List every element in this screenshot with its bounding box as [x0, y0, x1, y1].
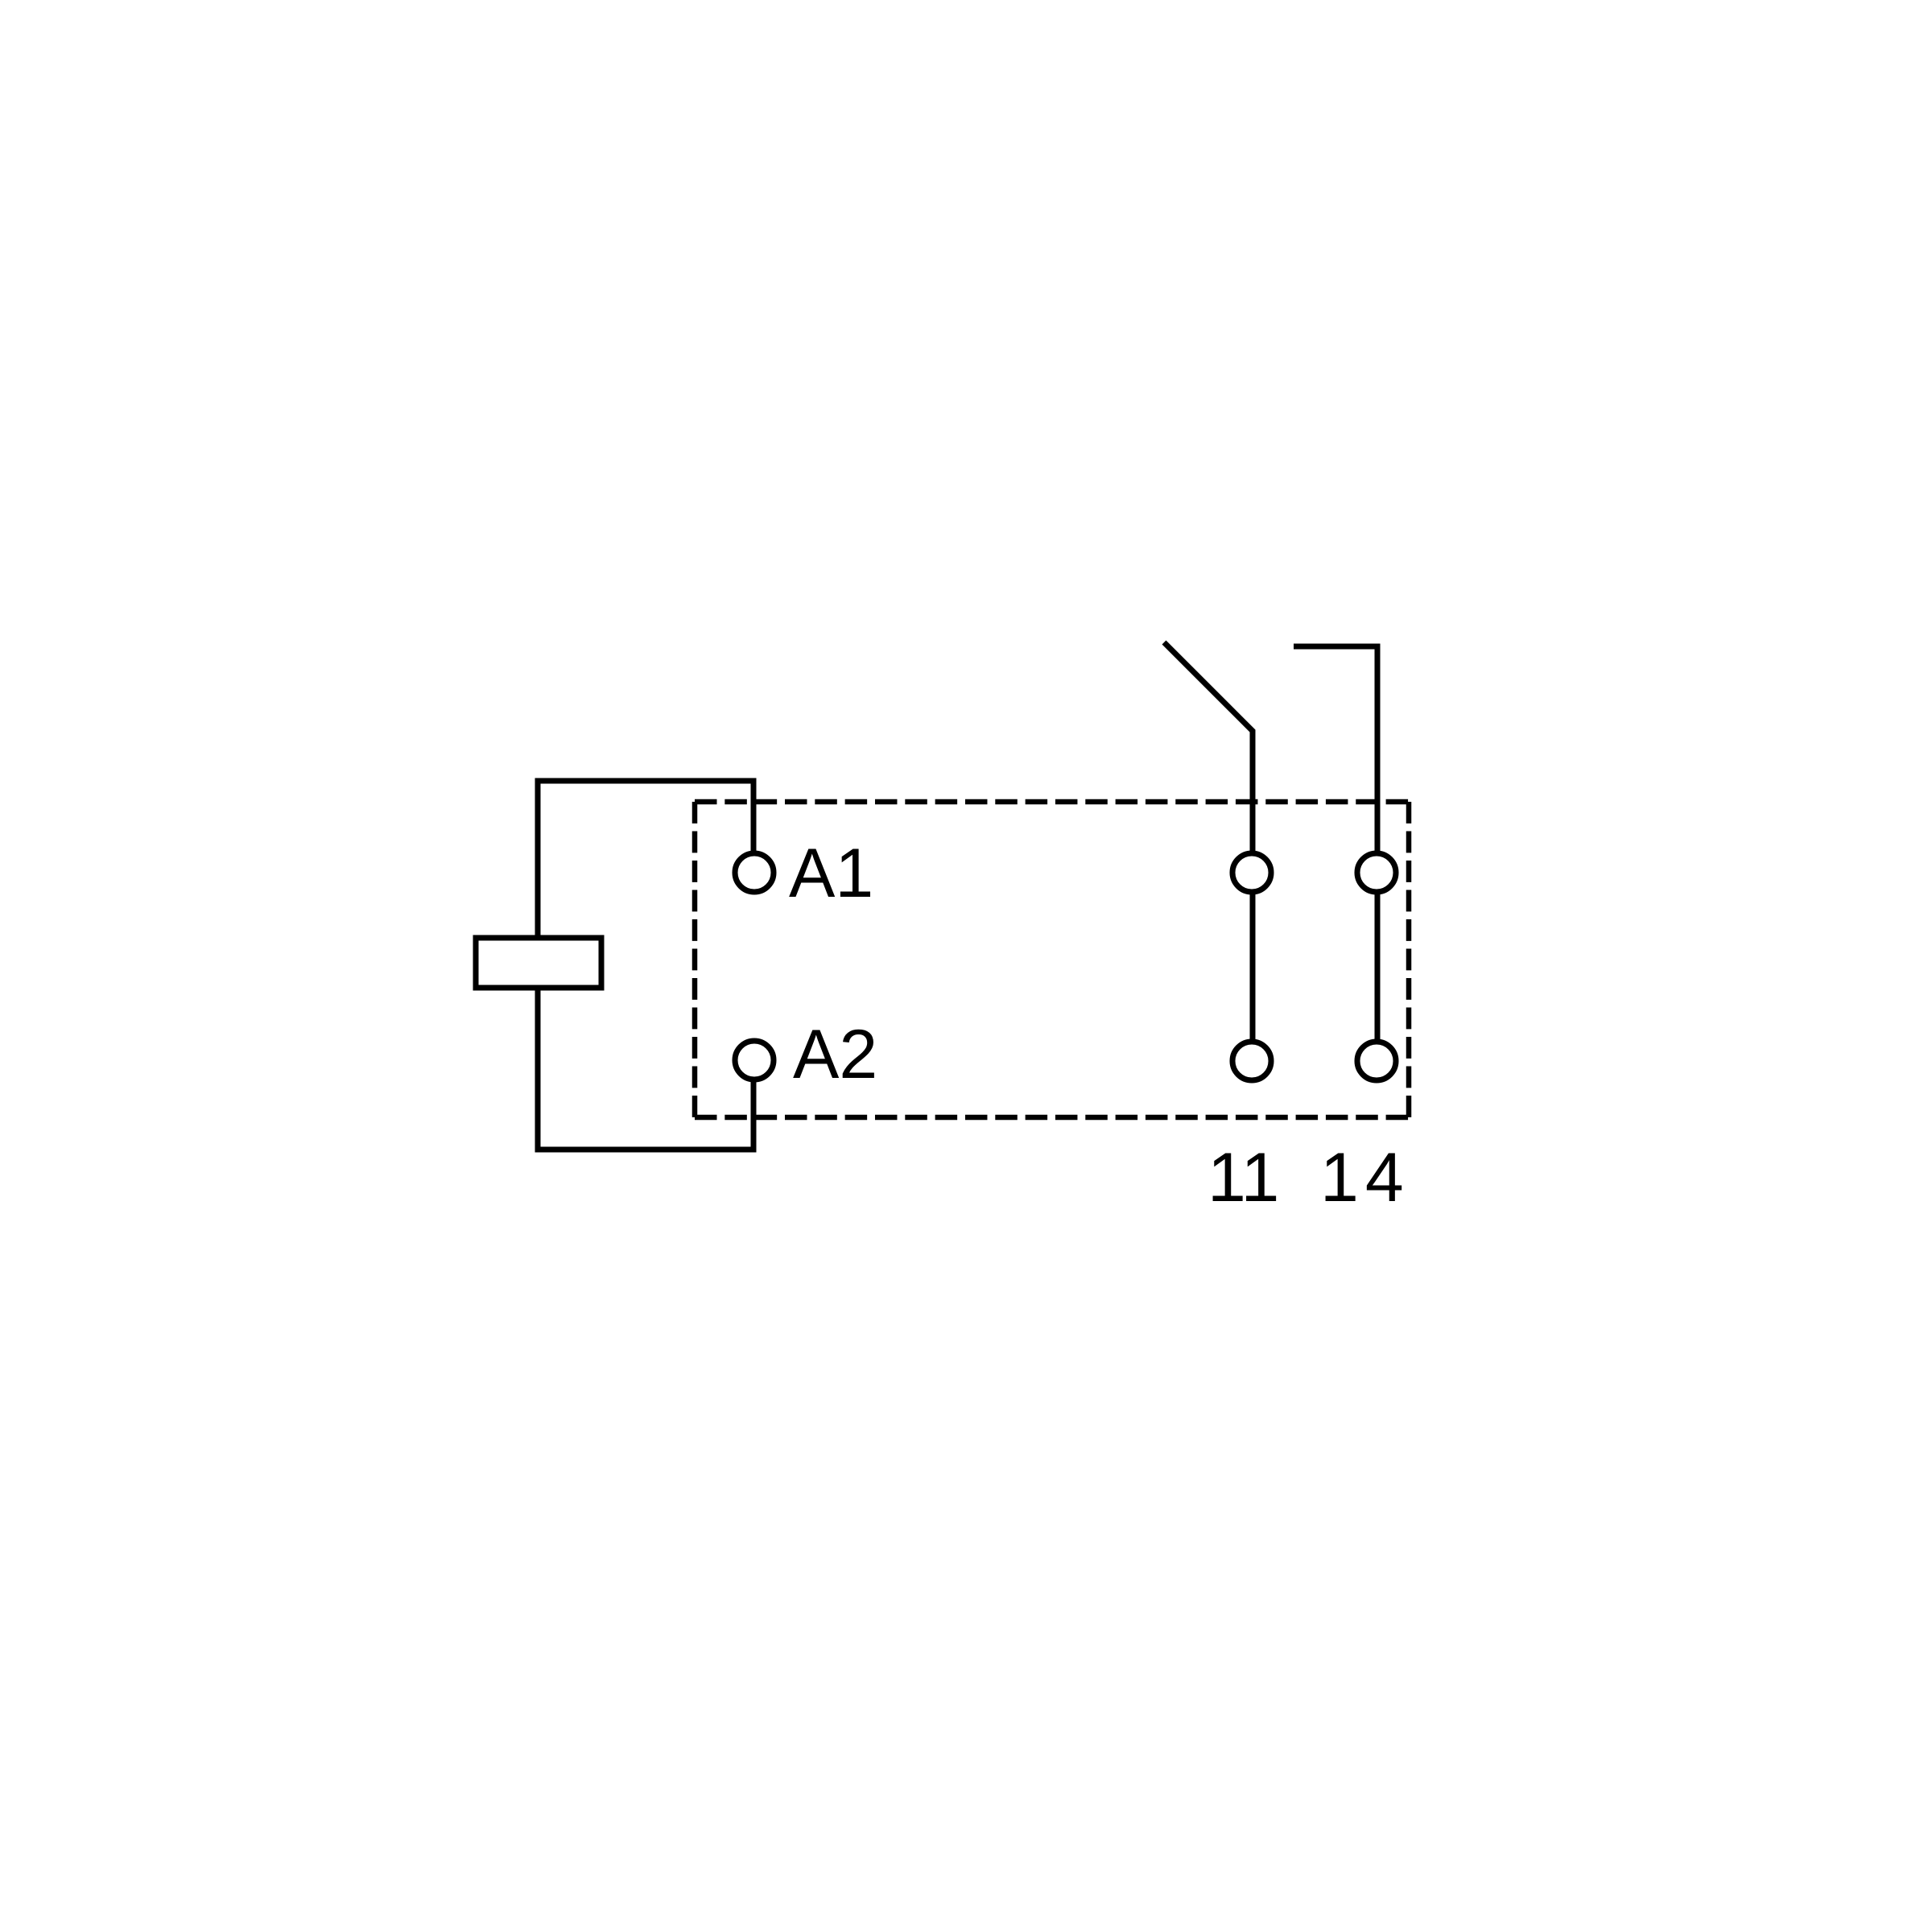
terminal A1 [735, 853, 774, 892]
wire coil loop: A1 feed (left vertical up, top horizontal, down to A1) [538, 781, 753, 938]
terminal 14 bottom [1357, 1042, 1396, 1080]
wire pin 14 (horizontal stub and vertical drop) [1294, 646, 1377, 1061]
svg-text:A2: A2 [793, 1016, 877, 1093]
relay body outline (dashed box) bottom edge [695, 1115, 1409, 1121]
svg-text:A1: A1 [789, 835, 873, 912]
relay body outline (dashed box) top edge [695, 799, 1409, 805]
relay body outline (dashed box) right edge [1406, 802, 1412, 1117]
relay body outline (dashed box) left edge [692, 802, 698, 1117]
terminal 11 top [1232, 853, 1271, 892]
terminal A2 [735, 1041, 774, 1080]
terminal 14 top [1357, 853, 1396, 892]
switch arm contact 11 (NO contact lever) [1164, 642, 1253, 1061]
svg-text:14: 14 [1320, 1139, 1410, 1216]
coil K1 [476, 938, 601, 988]
terminal 11 bottom [1232, 1042, 1271, 1080]
wire coil loop: A2 return (down from A2, bottom horizontal, up to coil) [538, 988, 753, 1150]
svg-text:11: 11 [1207, 1139, 1279, 1216]
